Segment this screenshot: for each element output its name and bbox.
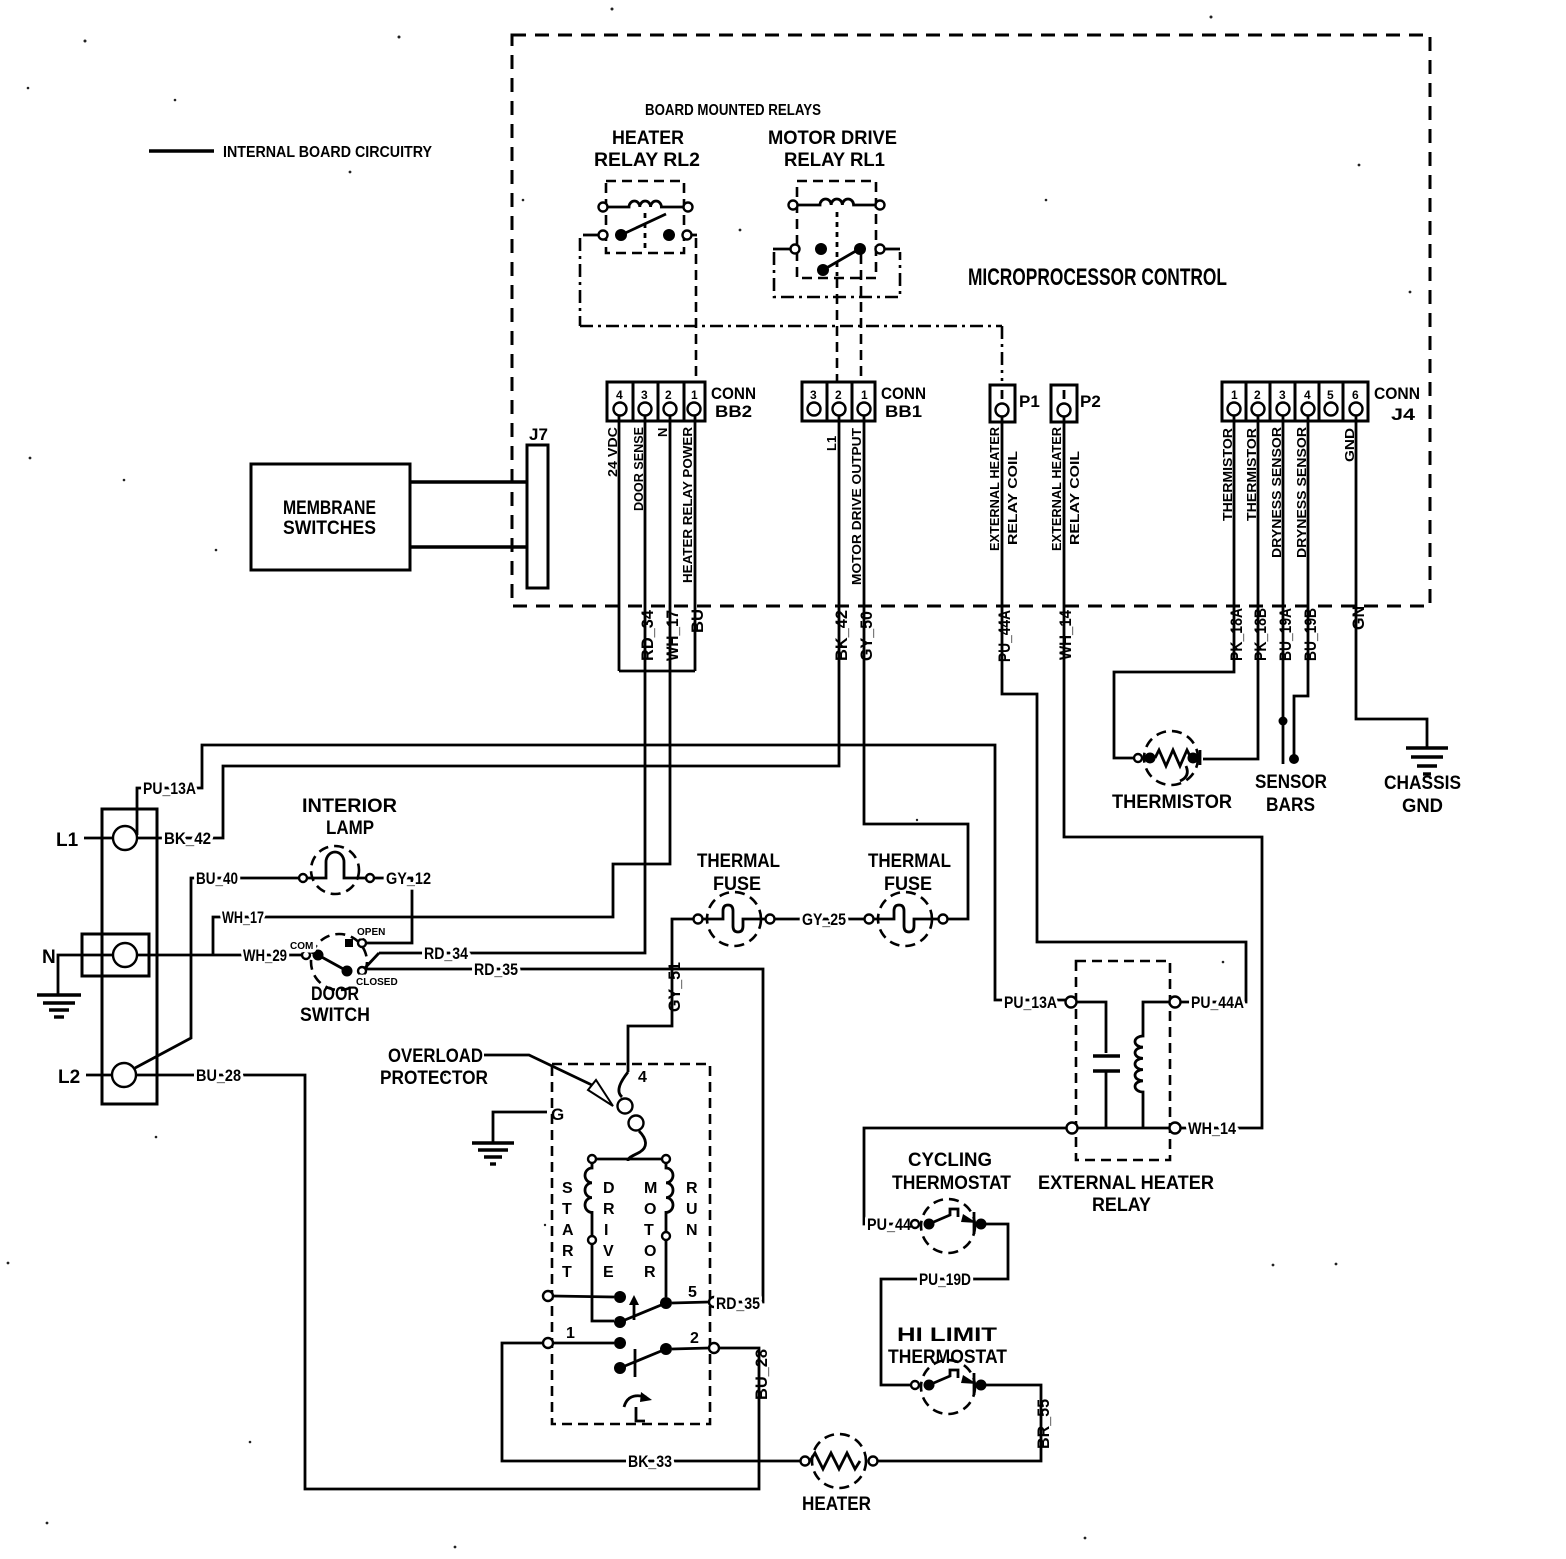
legend: internal board circuitry sample line — [149, 149, 214, 152]
svg-text:RELAY COIL: RELAY COIL — [1005, 451, 1020, 545]
wire L2 stub — [86, 1074, 112, 1077]
external heater relay dashed body — [1076, 961, 1170, 1160]
pin BB2-4 — [614, 403, 627, 416]
svg-text:P2: P2 — [1080, 392, 1101, 411]
svg-text:J4: J4 — [1391, 405, 1416, 424]
svg-text:BR_55: BR_55 — [1034, 1399, 1053, 1449]
svg-text:THERMAL: THERMAL — [697, 851, 780, 872]
relay RL2 contact — [583, 214, 697, 241]
svg-text:N: N — [42, 947, 56, 968]
svg-text:BU: BU — [688, 609, 707, 633]
wire dash-dot control bus horizontal — [580, 325, 1002, 328]
door switch COM terminal — [302, 950, 324, 961]
motor centrifugal switch contact 5 — [543, 1291, 719, 1328]
heater element — [801, 1453, 878, 1469]
overload protector pointer line and arrow — [484, 1055, 613, 1106]
relay RL1 coil — [789, 199, 885, 210]
wire N to door switch COM — [137, 954, 302, 957]
svg-text:PU_13A: PU_13A — [1004, 993, 1057, 1012]
svg-text:SENSOR: SENSOR — [1255, 772, 1327, 793]
svg-text:HEATER RELAY POWER: HEATER RELAY POWER — [680, 426, 695, 583]
external heater relay terminal WH_14 — [1170, 1123, 1181, 1134]
svg-text:CONN: CONN — [711, 384, 756, 403]
door switch dashed body — [311, 934, 367, 990]
wire PK_18A from J4 pin1 to thermistor — [1114, 415, 1234, 758]
svg-text:OPEN: OPEN — [357, 927, 385, 938]
svg-text:EXTERNAL HEATER: EXTERNAL HEATER — [1038, 1173, 1214, 1194]
wire 24 VDC pin4 down — [618, 415, 621, 671]
relay RL1 contact — [773, 243, 900, 276]
svg-text:DOOR: DOOR — [311, 984, 359, 1005]
svg-text:4: 4 — [1304, 388, 1311, 402]
connector J7 — [527, 445, 548, 588]
svg-text:RELAY: RELAY — [1092, 1195, 1151, 1216]
wire GY_12 lamp to door switch open contact — [366, 878, 412, 943]
pin BB1-3 — [808, 403, 821, 416]
svg-text:3: 3 — [810, 388, 817, 402]
svg-text:MOTOR DRIVE: MOTOR DRIVE — [768, 128, 897, 149]
svg-text:RD_34: RD_34 — [638, 609, 657, 661]
svg-text:6: 6 — [1352, 388, 1359, 402]
wire GY_25 between thermal fuses — [775, 918, 864, 921]
interior lamp element — [299, 852, 374, 882]
svg-text:PK_18B: PK_18B — [1251, 608, 1270, 661]
wire BK_42 from BB1 pin2 to terminal L1 — [137, 415, 839, 838]
svg-text:CONN: CONN — [1374, 384, 1420, 403]
thermistor terminals and resistor element — [1134, 750, 1200, 781]
svg-text:MICROPROCESSOR CONTROL: MICROPROCESSOR CONTROL — [968, 264, 1227, 291]
wire BK_33 from motor contact 1 to heater — [502, 1343, 801, 1461]
external heater relay terminal PU_44A — [1170, 997, 1181, 1008]
wire WH_17 from BB2 pin2 — [213, 415, 670, 955]
svg-text:OVERLOAD: OVERLOAD — [388, 1046, 483, 1067]
pin BB2-1 — [688, 403, 701, 416]
svg-text:5: 5 — [1327, 388, 1334, 402]
svg-text:RELAY RL1: RELAY RL1 — [784, 150, 885, 171]
svg-text:BK_42: BK_42 — [164, 829, 211, 848]
wire dash-dot from RL2 contact left down to bus — [579, 238, 582, 326]
svg-text:BOARD MOUNTED RELAYS: BOARD MOUNTED RELAYS — [645, 102, 821, 119]
wire dashed RL1 to CONN BB1 pin 2 — [836, 278, 839, 382]
thermal fuse 2 dashed body — [878, 892, 932, 946]
svg-text:4: 4 — [616, 388, 623, 402]
wire PU_44 from relay to cycling thermostat — [864, 1128, 1066, 1224]
connector P1 — [990, 385, 1015, 422]
svg-text:HEATER: HEATER — [802, 1494, 871, 1515]
interior lamp dashed body — [311, 846, 359, 894]
svg-text:THERMOSTAT: THERMOSTAT — [892, 1173, 1011, 1194]
svg-text:SWITCH: SWITCH — [300, 1005, 370, 1026]
motor M1 dashed body — [552, 1064, 710, 1424]
pin J4-1 — [1228, 403, 1241, 416]
svg-text:PU_44: PU_44 — [867, 1215, 911, 1234]
heater dashed body — [812, 1434, 866, 1488]
wire RD_35 from door switch to motor contact 5 — [366, 969, 763, 1302]
wire dash-dot bus drop to P1 — [1001, 326, 1004, 381]
membrane switches block — [251, 464, 410, 570]
svg-text:BB1: BB1 — [885, 402, 922, 421]
svg-text:EXTERNAL HEATER: EXTERNAL HEATER — [987, 426, 1002, 551]
svg-text:PK_18A: PK_18A — [1227, 608, 1246, 661]
door switch CLOSED contact — [342, 966, 367, 977]
svg-text:WH_17: WH_17 — [663, 610, 682, 661]
pin J4-3 — [1277, 403, 1290, 416]
svg-text:BARS: BARS — [1266, 795, 1315, 816]
svg-text:WH_14: WH_14 — [1056, 610, 1075, 660]
svg-text:BU_40: BU_40 — [196, 869, 238, 888]
svg-text:BU_28: BU_28 — [752, 1349, 771, 1400]
svg-text:L1: L1 — [56, 830, 79, 851]
svg-text:L2: L2 — [58, 1067, 80, 1088]
svg-text:GY_50: GY_50 — [857, 611, 876, 661]
svg-text:WH_14: WH_14 — [1188, 1119, 1236, 1138]
wire BR_55 hi-limit to heater — [877, 1385, 1041, 1461]
svg-text:GND: GND — [1402, 796, 1443, 817]
wire PU_13A from L1 to external heater relay — [137, 745, 1065, 1000]
terminal L2 — [112, 1063, 136, 1087]
terminal dot BU_19B — [1289, 754, 1299, 764]
svg-text:RUN: RUN — [686, 1180, 698, 1239]
svg-text:1: 1 — [566, 1325, 575, 1342]
connector CONN BB2 — [607, 382, 705, 421]
wire BU_28 from L2 to motor contact 2 — [136, 1075, 759, 1489]
pin BB1-2 — [833, 403, 846, 416]
svg-text:1: 1 — [691, 388, 698, 402]
relay RL2 coil — [599, 201, 693, 212]
cycling thermostat contacts — [911, 1209, 987, 1234]
wire L1 stub — [84, 837, 113, 840]
ground symbol at G — [472, 1143, 514, 1164]
neutral terminal block — [82, 934, 149, 976]
relay RL2 dashed body — [606, 181, 684, 253]
wire GY_51 from thermal fuse 1 to overload protector — [628, 919, 694, 1072]
wire BU pin1 down — [694, 415, 697, 671]
wire BU_40 from L2 to interior lamp — [135, 878, 299, 1068]
thermal fuse 1 dashed body — [707, 892, 761, 946]
junction on BU_19A — [1279, 717, 1288, 726]
ground symbol at N — [37, 995, 81, 1017]
pin BB1-1 — [858, 403, 871, 416]
svg-text:1: 1 — [861, 388, 868, 402]
wire closed contact to RD_34 — [364, 953, 379, 969]
thermal fuse 2 element — [865, 905, 948, 932]
terminal L1 — [113, 826, 137, 850]
svg-text:1: 1 — [1231, 388, 1238, 402]
pin J4-5 — [1325, 403, 1338, 416]
external heater relay coil — [1135, 1002, 1169, 1128]
wire BB2 bottom tie — [619, 670, 695, 673]
pin J4-4 — [1302, 403, 1315, 416]
external heater relay capacitor — [1077, 1002, 1120, 1128]
svg-text:MOTOR DRIVE OUTPUT: MOTOR DRIVE OUTPUT — [849, 428, 864, 585]
svg-text:PU_44A: PU_44A — [995, 610, 1014, 662]
connector CONN J4 — [1222, 382, 1368, 421]
hi limit thermostat contacts — [911, 1370, 987, 1395]
relay RL1 mechanical link — [836, 212, 839, 276]
overload protector bimetal discs — [618, 1072, 646, 1161]
wire N stub to ground — [58, 955, 113, 995]
svg-text:INTERIOR: INTERIOR — [302, 796, 397, 817]
pin BB2-2 — [664, 403, 677, 416]
svg-text:N: N — [655, 428, 670, 437]
wire GY_50 from BB1 pin1 to thermal fuse 2 — [864, 415, 968, 919]
external heater relay terminal PU_13A — [1066, 997, 1077, 1008]
svg-text:GY_51: GY_51 — [665, 962, 684, 1012]
wire PK_18B from J4 pin2 to thermistor — [1203, 415, 1258, 759]
thermal fuse 1 element — [694, 905, 775, 932]
power terminal block — [102, 809, 157, 1104]
svg-text:RD_35: RD_35 — [474, 960, 518, 979]
connector P2 — [1051, 385, 1077, 422]
svg-text:2: 2 — [835, 388, 842, 402]
motor start winding — [585, 1163, 614, 1321]
pin BB2-3 — [639, 403, 652, 416]
motor run winding — [662, 1163, 673, 1297]
svg-text:GY_12: GY_12 — [386, 869, 431, 888]
svg-text:INTERNAL BOARD CIRCUITRY: INTERNAL BOARD CIRCUITRY — [223, 144, 432, 161]
relay RL2 mechanical link — [644, 213, 647, 251]
svg-text:PU_44A: PU_44A — [1191, 993, 1244, 1012]
svg-text:PU_19D: PU_19D — [919, 1270, 971, 1289]
svg-text:CLOSED: CLOSED — [356, 977, 398, 988]
cycling thermostat dashed body — [921, 1199, 975, 1253]
wire G to ground — [493, 1112, 547, 1143]
svg-text:PU_13A: PU_13A — [143, 779, 196, 798]
svg-text:COM: COM — [290, 941, 313, 952]
pin J4-6 — [1350, 403, 1363, 416]
svg-text:2: 2 — [1254, 388, 1261, 402]
microprocessor control board dashed outline — [512, 35, 1430, 606]
svg-text:CYCLING: CYCLING — [908, 1150, 992, 1171]
svg-text:RELAY COIL: RELAY COIL — [1067, 451, 1082, 545]
chassis ground symbol — [1406, 748, 1448, 774]
actuator arrow at contact 5 — [629, 1295, 639, 1320]
wire dashed RL2 contact right to CONN BB2 pin 1 — [695, 238, 698, 382]
hi limit thermostat dashed body — [921, 1360, 975, 1414]
wire dash-dot pocket below RL1 — [774, 252, 900, 297]
motor top node — [588, 1155, 670, 1163]
svg-text:2: 2 — [690, 1330, 699, 1347]
svg-text:RELAY RL2: RELAY RL2 — [594, 150, 700, 171]
svg-text:THERMISTOR: THERMISTOR — [1112, 792, 1232, 813]
connector CONN BB1 — [802, 382, 875, 421]
motor switch contact 1-2 — [543, 1337, 719, 1374]
svg-text:5: 5 — [688, 1284, 697, 1301]
svg-text:BK_33: BK_33 — [628, 1452, 672, 1471]
wire GN from J4 pin6 to chassis ground — [1356, 415, 1427, 748]
svg-text:SWITCHES: SWITCHES — [283, 518, 376, 539]
svg-text:THERMOSTAT: THERMOSTAT — [888, 1347, 1007, 1368]
svg-text:P1: P1 — [1019, 392, 1040, 411]
svg-text:CHASSIS: CHASSIS — [1384, 773, 1461, 794]
svg-text:RD_35: RD_35 — [716, 1294, 760, 1313]
wire WH_14 from P2 to external heater relay — [1064, 416, 1262, 1128]
wire RD_34 from BB2 pin3 — [379, 415, 645, 953]
wire membrane to J7 upper — [410, 480, 527, 483]
thermistor RT1 dashed body — [1144, 731, 1198, 785]
svg-text:3: 3 — [641, 388, 648, 402]
svg-text:GY_25: GY_25 — [802, 910, 846, 929]
svg-text:BU_28: BU_28 — [196, 1066, 241, 1085]
svg-text:BB2: BB2 — [715, 402, 752, 421]
svg-text:RD_34: RD_34 — [424, 944, 468, 963]
svg-text:2: 2 — [665, 388, 672, 402]
wire BU_19A from J4 pin3 to sensor bars — [1282, 415, 1285, 764]
svg-text:LAMP: LAMP — [326, 818, 374, 839]
external heater relay terminal PU_44 — [1067, 1123, 1078, 1134]
wire PU_44A from P1 to external heater relay — [1002, 416, 1246, 1002]
svg-text:WH_17: WH_17 — [222, 908, 264, 927]
svg-text:THERMAL: THERMAL — [868, 851, 951, 872]
svg-text:BK_42: BK_42 — [832, 610, 851, 661]
svg-text:4: 4 — [638, 1069, 647, 1086]
actuator bar at contact 2 — [634, 1349, 637, 1377]
svg-text:PROTECTOR: PROTECTOR — [380, 1068, 488, 1089]
wire BU_19B from J4 pin4 to sensor bars — [1294, 415, 1308, 758]
svg-text:BU_19B: BU_19B — [1301, 608, 1320, 661]
svg-text:EXTERNAL HEATER: EXTERNAL HEATER — [1049, 426, 1064, 551]
wire PU_19D cycling thermostat to hi-limit — [881, 1224, 1008, 1385]
svg-text:MEMBRANE: MEMBRANE — [283, 498, 376, 519]
external heater relay bottom tie — [1078, 1127, 1169, 1130]
svg-text:CONN: CONN — [881, 384, 926, 403]
svg-text:BU_19A: BU_19A — [1276, 608, 1295, 661]
wire dashed RL1 to CONN BB1 pin 1 — [860, 254, 863, 382]
door switch OPEN contact — [345, 939, 366, 947]
wire membrane to J7 lower — [410, 545, 527, 548]
svg-text:J7: J7 — [529, 425, 548, 444]
svg-text:3: 3 — [1279, 388, 1286, 402]
svg-text:WH_29: WH_29 — [243, 946, 287, 965]
motor rotation mark — [624, 1392, 652, 1421]
pin J4-2 — [1252, 403, 1265, 416]
svg-text:L1: L1 — [824, 436, 839, 451]
svg-text:GN: GN — [1349, 606, 1368, 630]
relay RL1 dashed body — [797, 181, 876, 278]
svg-text:HI LIMIT: HI LIMIT — [897, 1325, 998, 1346]
terminal N — [113, 943, 137, 967]
svg-text:HEATER: HEATER — [612, 128, 684, 149]
door switch blade — [318, 955, 347, 971]
